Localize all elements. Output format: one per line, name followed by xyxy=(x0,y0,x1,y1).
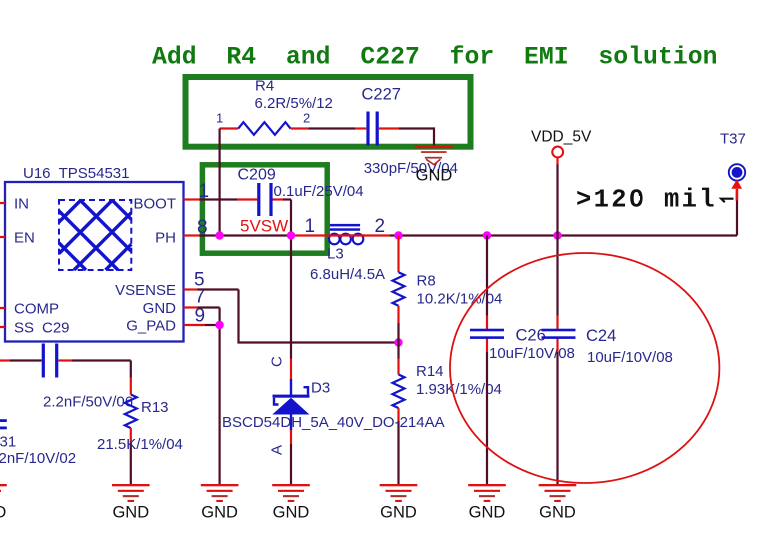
annotation green box 1 (R4/C227) xyxy=(186,77,471,147)
svg-text:1.93K/1%/04: 1.93K/1%/04 xyxy=(416,381,502,398)
zero glyph counter cover xyxy=(635,196,640,201)
resistor R8 xyxy=(393,236,405,343)
svg-text:PH: PH xyxy=(155,230,176,247)
svg-text:1: 1 xyxy=(216,111,223,126)
svg-text:G_PAD: G_PAD xyxy=(126,318,176,335)
svg-text:GND: GND xyxy=(112,503,149,521)
PH rail wire xyxy=(184,234,738,236)
junction VSENSE/R8/R14 xyxy=(394,338,402,346)
T37 red arrow xyxy=(731,179,742,188)
svg-text:R4: R4 xyxy=(255,78,274,95)
svg-text:2.2nF/50V/06: 2.2nF/50V/06 xyxy=(43,394,133,411)
power symbol VDD_5V xyxy=(552,147,563,158)
inductor L3 xyxy=(328,224,365,244)
BOOT wire xyxy=(184,198,292,200)
svg-text:U16 TPS54531: U16 TPS54531 xyxy=(23,165,129,182)
red ellipse annotation xyxy=(450,253,719,483)
U16 body xyxy=(5,182,184,342)
svg-text:GND: GND xyxy=(469,503,506,521)
wire VDD_5V down / C24 branch xyxy=(556,157,558,485)
VSENSE wire xyxy=(184,290,399,343)
svg-text:6.8uH/4.5A: 6.8uH/4.5A xyxy=(310,266,385,283)
ground C24 xyxy=(539,484,577,521)
svg-text:BSCD54DH_5A_40V_DO-214AA: BSCD54DH_5A_40V_DO-214AA xyxy=(222,414,445,431)
svg-text:GND: GND xyxy=(143,300,177,317)
ground U16 GND pin xyxy=(201,484,239,521)
svg-text:GND: GND xyxy=(380,503,417,521)
capacitor C24 xyxy=(542,329,576,332)
svg-text:D3: D3 xyxy=(311,380,330,397)
svg-text:C: C xyxy=(269,356,286,367)
svg-text:L3: L3 xyxy=(327,246,344,263)
svg-text:C209: C209 xyxy=(238,166,276,183)
svg-text:C24: C24 xyxy=(586,327,616,345)
svg-text:9: 9 xyxy=(195,306,206,327)
capacitor C227 xyxy=(366,112,378,146)
junction PH/R4 xyxy=(215,231,223,239)
test point T37 marker xyxy=(729,164,745,180)
svg-text:T37: T37 xyxy=(720,131,746,148)
svg-text:10uF/10V/08: 10uF/10V/08 xyxy=(587,349,673,366)
svg-text:GND: GND xyxy=(0,503,6,521)
svg-text:21.5K/1%/04: 21.5K/1%/04 xyxy=(97,436,183,453)
svg-text:1: 1 xyxy=(305,216,316,237)
U16 hatch pattern box xyxy=(59,200,131,270)
annotation green box 2 (C209) xyxy=(202,165,327,253)
svg-text:VDD_5V: VDD_5V xyxy=(531,129,592,146)
svg-text:GND: GND xyxy=(416,167,453,185)
svg-text:R14: R14 xyxy=(416,363,444,380)
wire R4 pin1 drop to PH xyxy=(219,129,221,236)
svg-text:2: 2 xyxy=(375,216,386,237)
partial capacitor at left edge xyxy=(0,419,7,422)
GND pin wire xyxy=(184,308,220,485)
junction C26 xyxy=(483,231,491,239)
svg-text:A: A xyxy=(269,445,286,455)
svg-text:31: 31 xyxy=(0,434,16,451)
junction GND/G_PAD xyxy=(215,321,223,329)
svg-text:BOOT: BOOT xyxy=(133,196,176,213)
svg-text:C26: C26 xyxy=(516,327,546,345)
ground R14 xyxy=(380,484,418,521)
wire R4 to C227 xyxy=(309,127,356,129)
annotation dash after mil xyxy=(721,199,733,203)
svg-text:2: 2 xyxy=(303,111,310,126)
svg-text:GND: GND xyxy=(273,503,310,521)
junction L3 out / R8 xyxy=(394,231,402,239)
U16 left pin stubs IN EN COMP SS xyxy=(0,203,5,327)
G_PAD pin wire xyxy=(184,324,220,326)
partial ground at left edge xyxy=(0,484,7,521)
ground D3 xyxy=(272,484,310,521)
capacitor C29 xyxy=(0,361,131,378)
ground R13 xyxy=(112,484,150,521)
svg-text:EN: EN xyxy=(14,230,35,247)
svg-text:Add R4 and C227 for EMI: Add R4 and C227 for EMI solution xyxy=(152,44,717,72)
svg-text:10uF/10V/08: 10uF/10V/08 xyxy=(489,345,575,362)
svg-text:6.2R/5%/12: 6.2R/5%/12 xyxy=(255,95,333,112)
svg-text:C227: C227 xyxy=(362,86,401,104)
svg-text:IN: IN xyxy=(14,196,29,213)
svg-text:R13: R13 xyxy=(141,399,169,416)
svg-text:10.2K/1%/04: 10.2K/1%/04 xyxy=(417,291,503,308)
svg-text:GND: GND xyxy=(539,503,576,521)
junction PH/C209-D3 xyxy=(287,231,295,239)
wire T37 down to rail xyxy=(736,201,738,236)
capacitor C209 xyxy=(257,183,272,216)
svg-text:C29: C29 xyxy=(42,320,70,337)
resistor R4 xyxy=(220,122,309,135)
junction VDD/C24 xyxy=(553,231,561,239)
wire C227 to GND xyxy=(379,127,399,129)
svg-text:0.1uF/25V/04: 0.1uF/25V/04 xyxy=(274,183,364,200)
svg-text:COMP: COMP xyxy=(14,301,59,318)
svg-text:SS: SS xyxy=(14,320,34,337)
ground C26 xyxy=(468,484,506,521)
ground symbol under C227 xyxy=(415,145,454,184)
resistor R14 xyxy=(393,343,405,485)
svg-text:VSENSE: VSENSE xyxy=(115,282,176,299)
capacitor C26 xyxy=(486,236,488,485)
svg-text:GND: GND xyxy=(201,503,238,521)
svg-text:5VSW: 5VSW xyxy=(240,217,288,236)
svg-text:>120 mil: >120 mil xyxy=(576,186,717,215)
wire BOOT-to-PH vertical (C209 right to PH) and down to D3 xyxy=(290,200,292,359)
svg-text:R8: R8 xyxy=(417,273,436,290)
diode D3 xyxy=(272,359,309,485)
resistor R13 xyxy=(125,378,137,485)
svg-text:2nF/10V/02: 2nF/10V/02 xyxy=(0,450,76,467)
